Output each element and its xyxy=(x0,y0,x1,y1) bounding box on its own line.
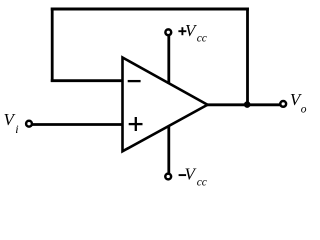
label Vi xyxy=(4,110,19,136)
svg-text:cc: cc xyxy=(197,177,207,189)
terminal +Vcc open circle xyxy=(165,29,171,35)
wire feedback lower horizontal to inverting input xyxy=(51,79,123,82)
wire op-amp output to Vo terminal xyxy=(207,103,281,106)
terminal Vi open circle xyxy=(26,121,32,127)
node junction dot at output/feedback xyxy=(244,101,251,108)
label Vo xyxy=(290,90,307,115)
svg-text:o: o xyxy=(301,103,307,115)
terminal -Vcc open circle xyxy=(165,174,171,180)
op-amp non-inverting input plus sign xyxy=(129,117,143,131)
op-amp inverting input minus sign xyxy=(128,80,141,82)
svg-text:i: i xyxy=(15,122,18,136)
op-amp U1 triangle xyxy=(123,58,208,152)
label -Vcc xyxy=(179,165,207,189)
label +Vcc xyxy=(178,21,207,45)
svg-text:cc: cc xyxy=(197,33,207,45)
wire feedback left vertical segment xyxy=(51,8,54,83)
wire feedback right vertical segment xyxy=(246,8,249,105)
wire +Vcc supply xyxy=(167,36,170,85)
wire input Vi to non-inverting input xyxy=(32,123,123,126)
wire -Vcc supply xyxy=(167,126,170,174)
wire feedback top segment xyxy=(51,8,249,11)
terminal Vo open circle xyxy=(280,101,286,107)
